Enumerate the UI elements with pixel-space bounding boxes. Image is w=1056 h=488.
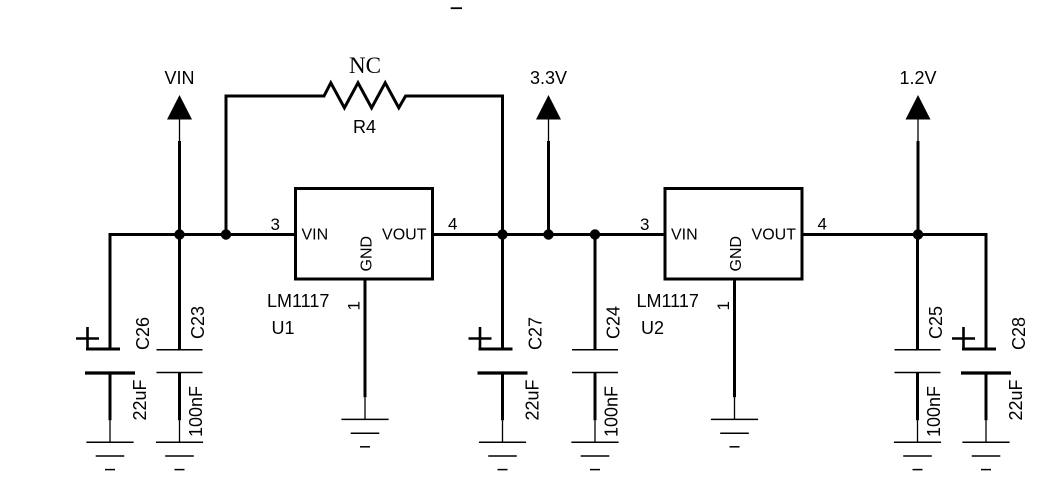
svg-text:22uF: 22uF — [130, 379, 150, 420]
svg-text:100nF: 100nF — [924, 386, 944, 437]
svg-text:4: 4 — [448, 215, 457, 234]
svg-text:NC: NC — [349, 53, 381, 78]
svg-text:1: 1 — [714, 301, 733, 310]
svg-text:VIN: VIN — [164, 68, 194, 88]
svg-text:3.3V: 3.3V — [530, 68, 567, 88]
svg-text:U2: U2 — [641, 318, 664, 338]
svg-text:VOUT: VOUT — [382, 227, 427, 244]
svg-text:C28: C28 — [1009, 317, 1029, 350]
svg-text:C25: C25 — [926, 306, 946, 339]
svg-text:1.2V: 1.2V — [899, 68, 936, 88]
svg-text:LM1117: LM1117 — [267, 291, 329, 311]
svg-text:C27: C27 — [526, 317, 546, 350]
svg-text:VIN: VIN — [671, 227, 698, 244]
svg-text:GND: GND — [359, 236, 376, 272]
svg-text:100nF: 100nF — [602, 386, 622, 437]
svg-text:C24: C24 — [604, 306, 624, 339]
svg-text:22uF: 22uF — [1006, 379, 1026, 420]
svg-text:C26: C26 — [133, 317, 153, 350]
svg-text:LM1117: LM1117 — [637, 291, 699, 311]
svg-text:100nF: 100nF — [186, 386, 206, 437]
svg-text:3: 3 — [640, 215, 649, 234]
svg-text:3: 3 — [271, 215, 280, 234]
svg-text:1: 1 — [345, 301, 364, 310]
svg-text:GND: GND — [728, 236, 745, 272]
svg-text:VOUT: VOUT — [752, 227, 797, 244]
svg-text:22uF: 22uF — [523, 379, 543, 420]
svg-text:R4: R4 — [353, 117, 376, 137]
svg-text:VIN: VIN — [302, 227, 329, 244]
svg-text:C23: C23 — [188, 306, 208, 339]
svg-text:U1: U1 — [272, 318, 295, 338]
svg-text:4: 4 — [818, 215, 827, 234]
